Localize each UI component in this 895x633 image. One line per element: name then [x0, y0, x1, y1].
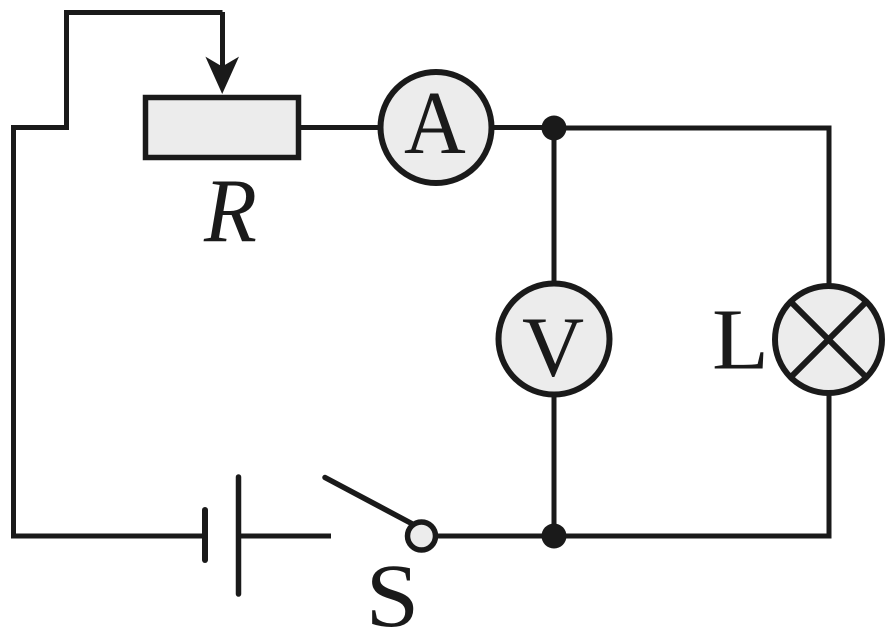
wire: wiper arm top run, left side down to battery negative — [14, 13, 223, 537]
svg-text:R: R — [203, 161, 257, 261]
resistor R (rheostat body) — [146, 98, 299, 158]
switch S pivot — [408, 522, 436, 550]
wire: switch pivot to node B — [437, 534, 554, 539]
slider arrowhead — [205, 57, 239, 94]
wire: lamp bottom to bottom-right corner to node B — [554, 392, 829, 536]
battery cell negative plate (short) — [202, 510, 208, 560]
wire: battery positive to switch left end — [239, 534, 332, 539]
wire: node A down to voltmeter top — [552, 128, 557, 285]
node B (junction dot bottom) — [542, 524, 567, 549]
voltmeter V1 body — [499, 284, 610, 395]
svg-text:S: S — [366, 547, 420, 633]
svg-text:V: V — [522, 299, 584, 395]
svg-text:A: A — [404, 73, 466, 172]
ammeter A1 body — [381, 72, 492, 183]
node A (junction dot top) — [542, 116, 567, 141]
wire: slider arrow stem — [220, 12, 225, 78]
wire: node A to top-right corner down to lamp top — [554, 128, 829, 287]
lamp L body — [775, 286, 882, 393]
wire: voltmeter bottom to node B — [552, 393, 557, 536]
svg-text:L: L — [712, 291, 769, 387]
lamp L cross — [791, 302, 867, 378]
wire: ammeter to node A — [491, 125, 554, 130]
battery cell positive plate (long) — [236, 477, 242, 594]
switch S lever — [325, 478, 413, 525]
wire: resistor right terminal to ammeter — [299, 125, 381, 130]
